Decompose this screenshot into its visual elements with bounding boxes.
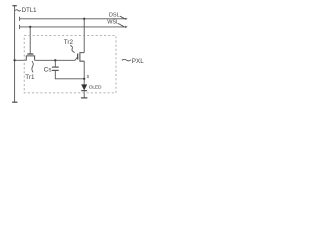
svg-text:s: s bbox=[87, 74, 90, 80]
svg-text:PXL: PXL bbox=[132, 58, 144, 65]
svg-text:WSL: WSL bbox=[107, 20, 119, 26]
svg-text:Tr2: Tr2 bbox=[64, 39, 74, 46]
svg-text:DSL: DSL bbox=[109, 12, 120, 18]
svg-text:Tr1: Tr1 bbox=[25, 74, 35, 81]
svg-text:DTL1: DTL1 bbox=[22, 8, 37, 14]
svg-text:Cs: Cs bbox=[44, 67, 52, 74]
svg-text:OLED: OLED bbox=[89, 85, 102, 91]
